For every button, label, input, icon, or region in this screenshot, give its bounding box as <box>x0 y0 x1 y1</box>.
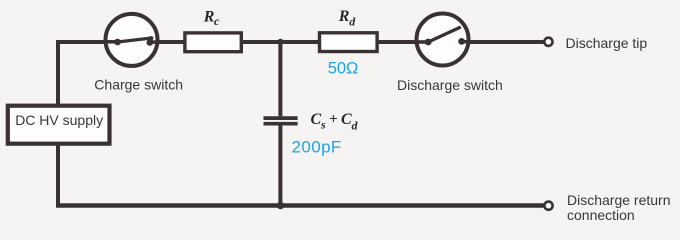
svg-text:+: + <box>329 112 338 128</box>
svg-text:c: c <box>214 14 220 28</box>
svg-text:200pF: 200pF <box>292 138 342 157</box>
svg-text:R: R <box>338 8 350 25</box>
svg-text:C: C <box>311 111 322 128</box>
svg-text:Charge switch: Charge switch <box>94 77 183 93</box>
svg-text:50Ω: 50Ω <box>328 60 359 78</box>
svg-text:d: d <box>349 14 356 28</box>
svg-text:s: s <box>320 117 326 131</box>
svg-text:connection: connection <box>567 207 635 223</box>
svg-text:d: d <box>352 119 359 133</box>
svg-text:Discharge return: Discharge return <box>567 192 671 208</box>
svg-text:C: C <box>341 111 352 128</box>
svg-text:R: R <box>203 9 215 26</box>
svg-text:Discharge tip: Discharge tip <box>566 35 648 51</box>
svg-text:DC HV supply: DC HV supply <box>15 112 103 128</box>
svg-text:Discharge switch: Discharge switch <box>397 77 503 93</box>
